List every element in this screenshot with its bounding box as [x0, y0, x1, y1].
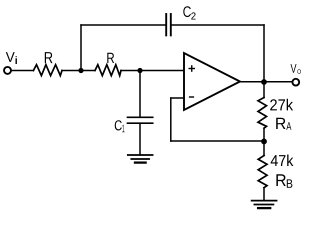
output terminal Vo	[292, 79, 299, 86]
resistor R1	[33, 65, 62, 76]
ground at RB	[252, 201, 277, 209]
label C1	[115, 120, 125, 132]
node A junction after R1	[78, 68, 83, 73]
wire divider node to RB	[263, 141, 265, 155]
op-amp plus marker	[189, 66, 194, 71]
wire top feedback left segment	[81, 24, 166, 26]
label RB designator	[276, 174, 292, 188]
label RB value 47k	[271, 155, 294, 167]
wire inverting feedback down	[170, 98, 172, 141]
op-amp U1	[184, 53, 240, 110]
op-amp minus marker	[190, 96, 194, 98]
wire RB to ground	[263, 188, 265, 201]
label R2 value R	[107, 53, 114, 63]
wire feedback up from node A	[80, 25, 82, 71]
resistor R2	[95, 65, 121, 76]
input terminal Vi	[4, 67, 11, 74]
wire top feedback right segment	[172, 24, 265, 26]
wire inverting feedback to divider node	[171, 140, 264, 142]
capacitor C2	[166, 14, 171, 35]
label Vo	[291, 64, 301, 74]
label RA designator	[276, 118, 291, 130]
wire node B down to C1	[139, 71, 141, 117]
wire inverting input stub	[171, 97, 184, 99]
wire RA to divider node	[263, 128, 265, 141]
label C2	[183, 6, 195, 19]
resistor RB	[258, 156, 267, 188]
wire C1 to ground	[139, 124, 141, 155]
node output junction	[261, 79, 267, 85]
wire input to R1	[11, 70, 34, 72]
label R1 value R	[45, 52, 53, 63]
ground at C1	[128, 155, 153, 163]
wire feedback down to output node	[263, 25, 265, 82]
wire op-amp output	[240, 81, 292, 83]
wire R1 to R2	[62, 70, 95, 72]
capacitor C1	[128, 117, 153, 123]
node divider junction	[261, 139, 267, 145]
node B junction after R2	[137, 68, 142, 73]
label RA value 27k	[270, 99, 293, 111]
wire output node down to RA	[263, 82, 265, 98]
wire R2 to op-amp noninverting input	[121, 70, 184, 72]
label Vi	[6, 52, 17, 64]
resistor RA	[258, 98, 267, 129]
